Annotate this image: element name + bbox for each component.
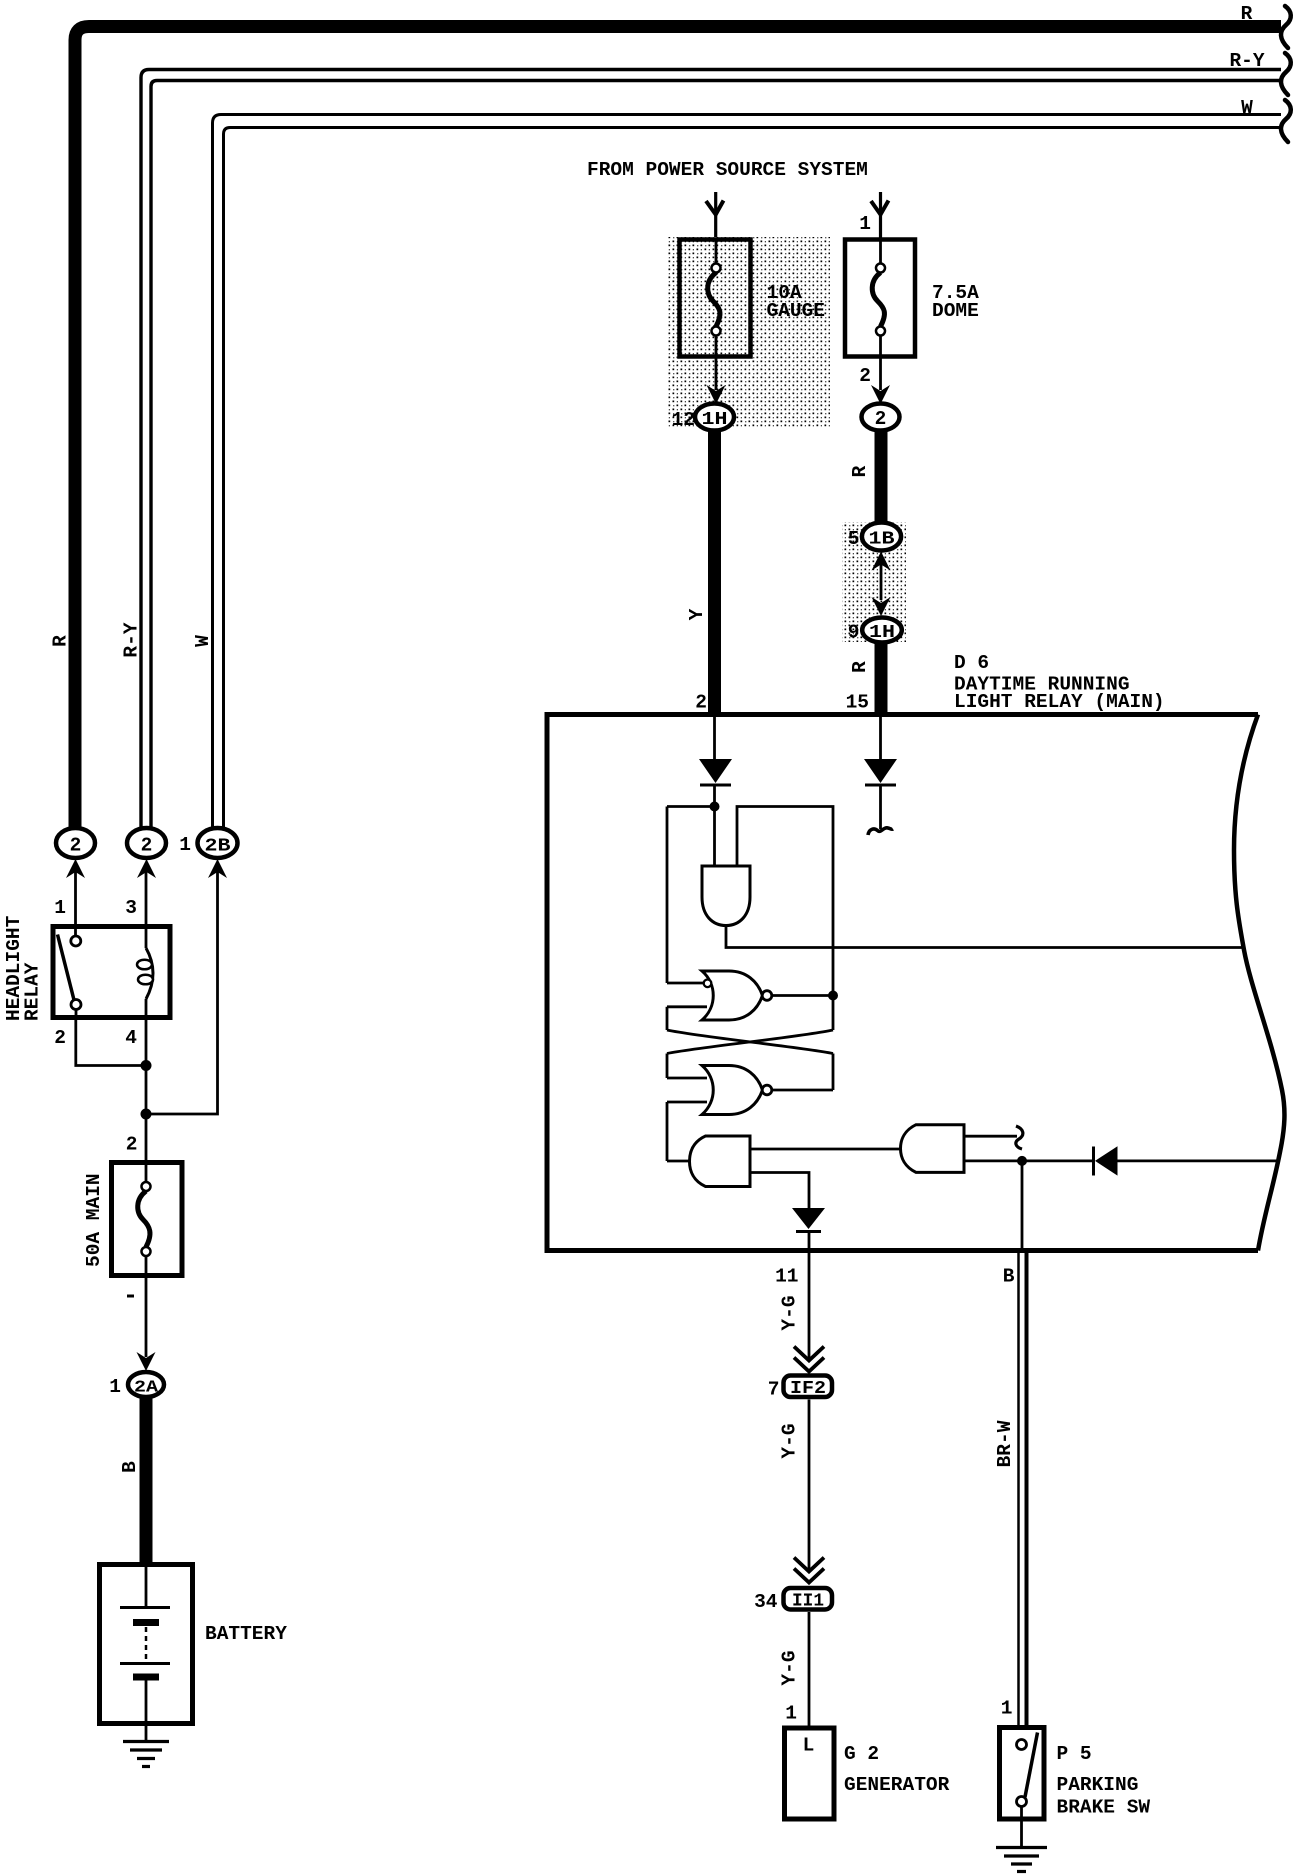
svg-text:3: 3 [125,897,137,919]
ground (parking brake sw) [996,1846,1047,1849]
wire R (thick) dome to 1B [875,430,888,523]
gate NOR2 [702,1066,763,1115]
svg-text:2: 2 [695,692,707,714]
svg-text:DOME: DOME [932,300,979,322]
svg-text:R: R [849,661,871,673]
ground (battery) [123,1740,169,1743]
wire relay pin 2 to junction [76,1018,146,1066]
svg-text:Y-G: Y-G [779,1650,801,1685]
diode D3 (down) [792,1208,825,1229]
junction node B [828,991,838,1001]
svg-text:1: 1 [1001,1698,1013,1720]
svg-text:R: R [849,465,871,477]
feed arrow right [879,192,882,240]
wire node C down to pin B [1021,1161,1024,1250]
svg-text:Y-G: Y-G [779,1423,801,1458]
arrow into connector 2A [137,1352,156,1371]
svg-text:BATTERY: BATTERY [205,1623,287,1645]
connector 2B (W wire) [198,828,238,858]
connector 2 (R-Y wire) [127,828,166,858]
arrow into connector 2 [871,385,890,404]
svg-text:50A MAIN: 50A MAIN [83,1173,105,1267]
connector pass-through arrows (IF2) [794,1347,824,1361]
arrow into connector 2 [137,859,156,878]
gate NOR1 [702,971,763,1020]
diode D2 (down) [864,759,897,783]
junction node A [710,802,720,812]
fuse box 7.5A DOME [845,240,915,357]
AND2 bottom line to diode D3 [750,1173,809,1209]
parking brake switch P5 box [1000,1728,1045,1820]
AND1 output down then right to box edge [726,926,1243,948]
gate AND3 (nose left) [901,1125,965,1173]
AND1 right input feedback route [737,807,833,992]
gate AND1 (pointing down) [702,866,750,926]
fuse box 10A GAUGE [680,240,751,357]
NOR2 output bubble [762,1085,772,1095]
svg-text:FROM POWER SOURCE SYSTEM: FROM POWER SOURCE SYSTEM [587,159,868,181]
wire connector2 to relay pin 1 [74,866,77,924]
NOR2 inputs [667,1077,707,1080]
diode D1 (down) [699,759,732,783]
svg-text:1: 1 [109,1376,121,1398]
AND2 top line to AND3 [750,1148,901,1151]
continuation squiggle R [1281,6,1291,48]
left rail down to NOR1 input [666,807,669,984]
continuation squiggle W [1281,100,1291,142]
svg-text:5: 5 [848,528,860,550]
svg-text:1B: 1B [869,530,895,550]
connector 1B [862,523,901,551]
gate AND2 (nose left) [690,1136,751,1187]
svg-text:II1: II1 [792,1592,824,1612]
svg-text:R-Y: R-Y [1229,50,1264,72]
svg-text:GENERATOR: GENERATOR [844,1774,950,1796]
pin 1 label (rotated dash) below 50A [127,1295,134,1298]
NOR1 input bubble [704,980,712,988]
wire R (thick) 1H to relay pin 15 [875,643,888,714]
fuse element 7.5A [879,240,882,264]
stipple zone around 1B/1H [842,522,906,642]
wire relay pin 4 down to 50A MAIN [145,1018,148,1160]
connector 1H (second) [862,618,902,643]
junction dot W branch [141,1109,152,1120]
junction node C [1017,1156,1027,1166]
svg-text:2: 2 [875,408,887,430]
svg-text:W: W [1241,97,1253,119]
NOR2 output wire [772,1089,833,1092]
wire Y (thick) 1H to relay pin 2 [708,430,721,713]
AND3 bottom output to node C [964,1160,1022,1163]
wire connector2 to relay pin 3 [145,866,148,924]
svg-text:IF2: IF2 [790,1379,826,1399]
svg-text:2A: 2A [134,1379,159,1398]
svg-text:2B: 2B [205,837,231,857]
svg-text:Y-G: Y-G [779,1295,801,1330]
wire BR-W (double) pin B to parking brake sw [1017,1253,1020,1727]
wire junction to AND1 left input [713,807,716,867]
connector 2 (R wire) [56,828,95,858]
svg-text:2: 2 [126,1134,138,1156]
NOR1 output bubble [762,991,772,1001]
arrow into connector 2B [208,859,227,878]
svg-text:9: 9 [848,622,860,644]
left rail NOR2 bottom input to AND2 [666,1102,669,1161]
diode D4 (pointing left) [1092,1147,1095,1176]
arrow into connector 2 [66,859,85,878]
svg-text:1: 1 [54,897,66,919]
stipple zone around 10A GAUGE [667,237,830,428]
svg-text:L: L [803,1735,815,1757]
svg-text:34: 34 [754,1591,778,1613]
junction dot pin2/pin4 [141,1060,152,1071]
svg-text:R: R [50,635,72,647]
svg-text:W: W [192,635,214,647]
AND3 top output with curl [964,1135,1017,1138]
arrow up from 1B [872,552,891,571]
svg-text:12: 12 [672,409,695,431]
svg-text:R-Y: R-Y [121,622,143,657]
svg-text:B: B [119,1461,141,1473]
svg-text:R: R [1241,3,1253,25]
NOR1 output wire to node B [772,994,833,997]
wire connector 2B down to junction [146,866,218,1114]
svg-text:1H: 1H [869,623,895,643]
svg-text:2: 2 [54,1027,66,1049]
svg-text:1: 1 [179,834,191,856]
fuse box 50A MAIN [112,1163,183,1276]
switch P5 [1017,1740,1027,1750]
svg-text:1: 1 [785,1703,797,1725]
svg-text:GAUGE: GAUGE [767,300,826,322]
svg-text:1: 1 [859,213,871,235]
arrow down into 1H [872,597,891,616]
svg-text:2: 2 [141,835,153,857]
svg-text:15: 15 [846,692,869,714]
connector pass-through arrows (II1) [794,1558,824,1572]
svg-text:2: 2 [859,365,871,387]
wire pin15 into box [879,716,882,759]
connector 1H [695,404,734,431]
wire node C to diode D4 [1022,1160,1094,1163]
wire R (thick bus, top-left corner, to connector 2) [75,27,1281,830]
svg-text:1H: 1H [702,410,728,430]
svg-text:BR-W: BR-W [994,1420,1016,1467]
svg-text:7: 7 [768,1379,780,1401]
wire IF2 to II1 [808,1400,811,1570]
relay switch [74,926,77,936]
connector II1 [784,1588,833,1610]
svg-text:B: B [1003,1266,1015,1288]
svg-text:RELAY: RELAY [22,962,44,1021]
headlight relay box [53,927,170,1018]
continuation squiggle R-Y [1281,53,1291,95]
wire to ground [1020,1807,1023,1847]
wire B (thick) to battery [140,1397,153,1564]
relay box D6 wavy right edge [1234,715,1284,1251]
relay box D6 outline [547,715,1258,1251]
svg-text:P 5: P 5 [1057,1743,1092,1765]
svg-text:Y: Y [686,608,708,620]
battery cells [145,1564,148,1606]
connector IF2 [784,1376,833,1398]
fuse element 50A [145,1160,148,1182]
latch cross-coupling wires [666,1007,669,1030]
svg-text:2: 2 [70,835,82,857]
feed arrow left [714,192,717,240]
wire pin 11 down [808,1253,811,1358]
wire junction to left rail [667,805,715,808]
svg-text:PARKING: PARKING [1057,1774,1139,1796]
svg-text:4: 4 [125,1027,137,1049]
connector 2 (dome) [862,404,900,431]
svg-text:G 2: G 2 [844,1743,879,1765]
battery box [100,1565,193,1724]
svg-text:11: 11 [775,1266,798,1288]
connector 2A [128,1372,164,1397]
fuse element 10A [715,240,718,264]
relay coil [145,926,148,948]
wire II1 to generator [808,1612,811,1727]
curl (unconnected end) below D2 [879,785,882,829]
generator G2 box [785,1728,835,1819]
svg-text:LIGHT RELAY (MAIN): LIGHT RELAY (MAIN) [954,691,1165,713]
wire R-Y (double line, top-left corner) [141,70,1281,830]
wire W (double line, top-left corner) [213,115,1282,830]
arrow into connector 1H [707,385,726,404]
wire pin2 into box [713,716,716,759]
NOR1 inputs [667,982,704,985]
svg-text:D 6: D 6 [954,652,989,674]
svg-text:BRAKE SW: BRAKE SW [1057,1797,1151,1819]
